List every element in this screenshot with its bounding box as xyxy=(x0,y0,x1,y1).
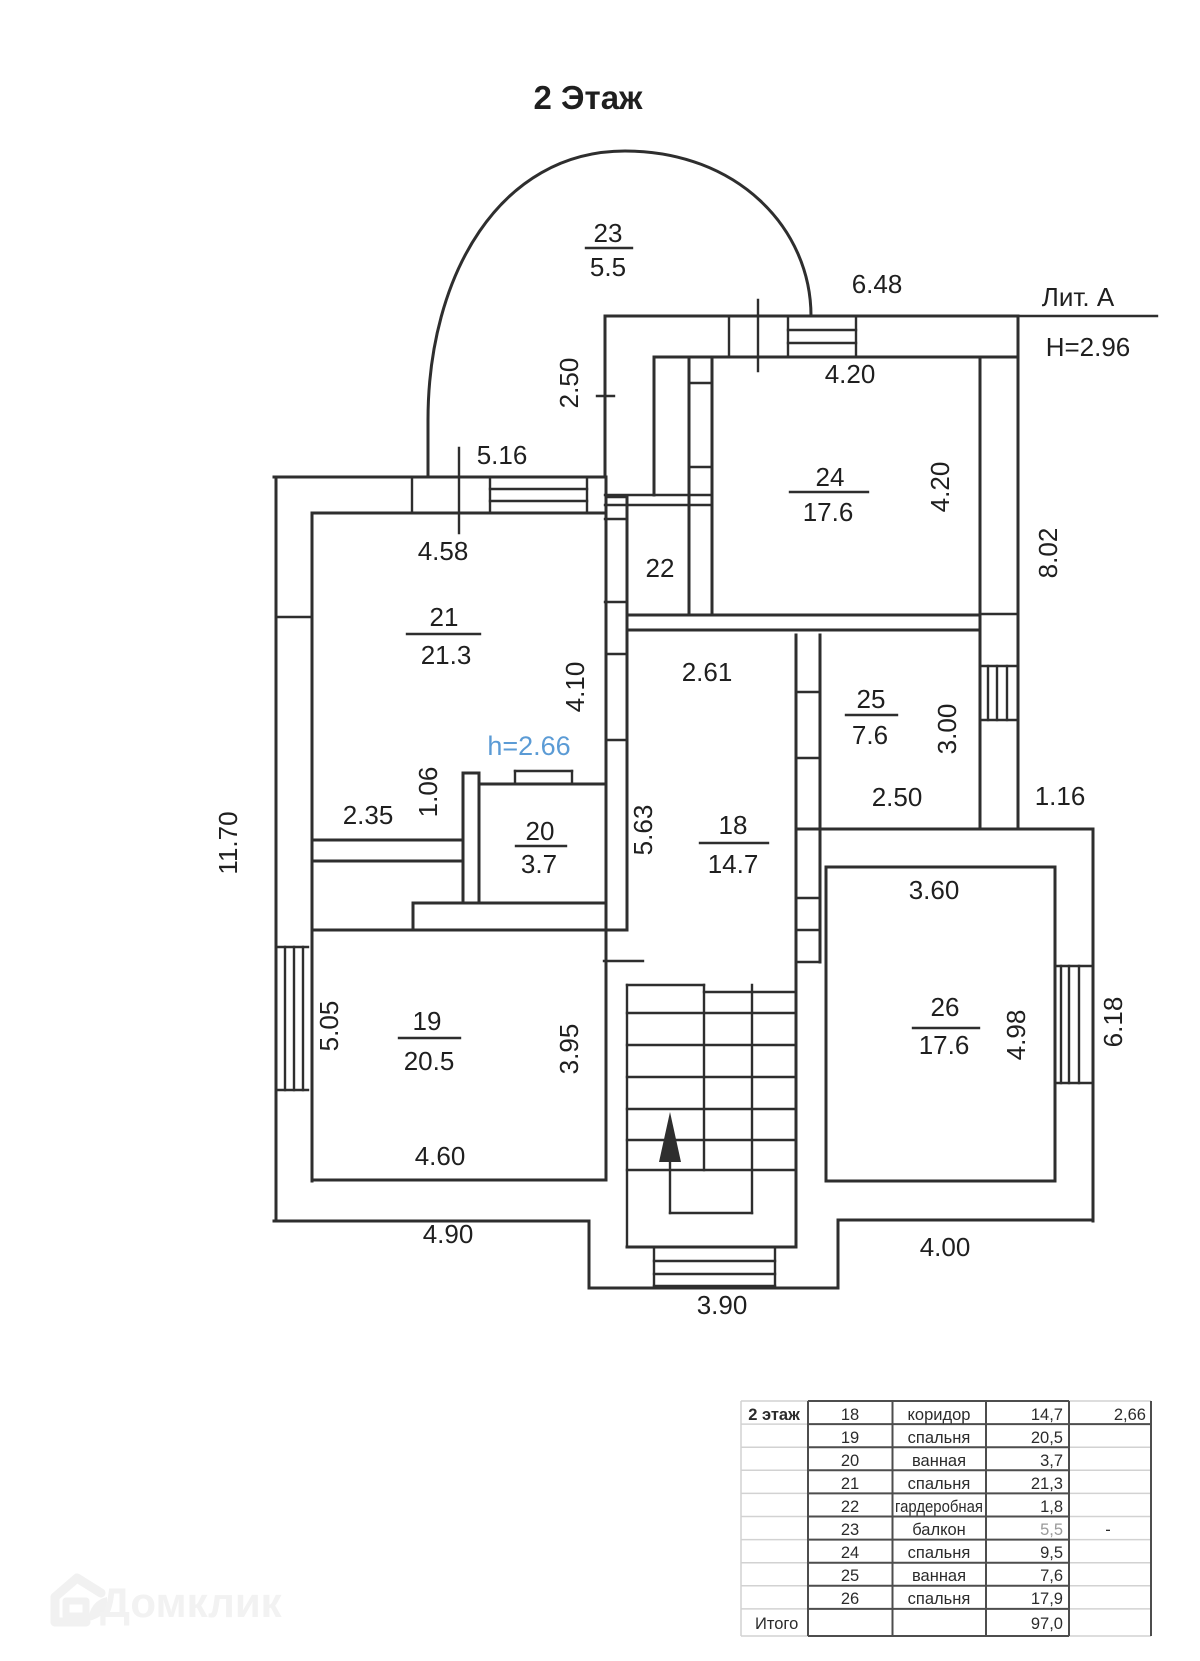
left wing outer walls xyxy=(275,477,278,1221)
svg-text:2.50: 2.50 xyxy=(872,782,923,812)
east outer wall lower xyxy=(1092,829,1095,1221)
corridor 18 east wall band xyxy=(795,635,798,1247)
stairs arrow head xyxy=(659,1112,681,1162)
svg-text:спальня: спальня xyxy=(908,1475,971,1493)
svg-text:22: 22 xyxy=(646,553,675,583)
svg-text:5.16: 5.16 xyxy=(477,440,528,470)
svg-text:20,5: 20,5 xyxy=(1031,1429,1063,1447)
partition 21/19 xyxy=(312,839,463,842)
svg-text:2.61: 2.61 xyxy=(682,657,733,687)
svg-text:23: 23 xyxy=(841,1521,859,1539)
svg-text:коридор: коридор xyxy=(908,1406,971,1424)
svg-text:4.20: 4.20 xyxy=(925,462,955,513)
svg-text:2.50: 2.50 xyxy=(554,358,584,409)
room 26 box xyxy=(825,867,828,1181)
svg-text:5.05: 5.05 xyxy=(314,1001,344,1052)
wall x654 xyxy=(653,357,656,495)
svg-text:26: 26 xyxy=(841,1590,859,1608)
svg-text:22: 22 xyxy=(841,1498,859,1516)
room 20 xyxy=(479,783,604,786)
svg-text:21: 21 xyxy=(430,602,459,632)
svg-text:балкон: балкон xyxy=(912,1521,966,1539)
balcony 23 arc xyxy=(428,151,811,477)
dim tick 5.16 xyxy=(458,448,460,533)
table xyxy=(741,1401,1151,1636)
svg-text:7,6: 7,6 xyxy=(1040,1567,1063,1585)
stairwell bottom wall xyxy=(627,1246,796,1249)
svg-text:-: - xyxy=(1105,1521,1111,1539)
dim tick 6.48 xyxy=(757,300,759,371)
svg-text:19: 19 xyxy=(841,1429,859,1447)
svg-text:8.02: 8.02 xyxy=(1033,528,1063,579)
svg-text:21: 21 xyxy=(841,1475,859,1493)
svg-text:4.90: 4.90 xyxy=(423,1219,474,1249)
svg-text:2 Этаж: 2 Этаж xyxy=(534,79,644,116)
tick east xyxy=(980,613,1018,615)
svg-text:ванная: ванная xyxy=(912,1452,966,1470)
svg-text:1.16: 1.16 xyxy=(1035,781,1086,811)
room 19 bottom wall xyxy=(312,1179,606,1182)
room 24 bottom wall band xyxy=(627,614,980,617)
dim tick 2.50 xyxy=(597,395,614,397)
svg-text:h=2.66: h=2.66 xyxy=(487,731,570,761)
svg-text:ванная: ванная xyxy=(912,1567,966,1585)
svg-text:гардеробная: гардеробная xyxy=(895,1498,983,1516)
svg-text:6.18: 6.18 xyxy=(1098,997,1128,1048)
landing tick xyxy=(604,960,643,962)
window W3 east lower xyxy=(1055,966,1093,1083)
bottom wall right xyxy=(838,1219,1093,1222)
svg-text:17.6: 17.6 xyxy=(803,497,854,527)
svg-text:21,3: 21,3 xyxy=(1031,1475,1063,1493)
svg-text:3.7: 3.7 xyxy=(521,849,557,879)
svg-text:спальня: спальня xyxy=(908,1590,971,1608)
window W2 east xyxy=(980,666,1018,720)
watermark logo Домклик xyxy=(55,1578,107,1622)
svg-text:17,9: 17,9 xyxy=(1031,1590,1063,1608)
porch window W6 xyxy=(654,1247,775,1286)
window W5 west xyxy=(276,947,308,1090)
svg-text:97,0: 97,0 xyxy=(1031,1615,1063,1633)
svg-text:25: 25 xyxy=(857,684,886,714)
room 25 bottom wall xyxy=(796,828,1093,831)
svg-text:Итого: Итого xyxy=(755,1615,798,1633)
svg-text:5.5: 5.5 xyxy=(590,252,626,282)
svg-text:20: 20 xyxy=(841,1452,859,1470)
inner top wall line xyxy=(654,356,1016,359)
room 24 east inner wall xyxy=(979,357,982,829)
svg-text:25: 25 xyxy=(841,1567,859,1585)
svg-text:23: 23 xyxy=(594,218,623,248)
svg-text:14.7: 14.7 xyxy=(708,849,759,879)
stairs xyxy=(627,985,796,1247)
svg-text:18: 18 xyxy=(719,810,748,840)
svg-text:11.70: 11.70 xyxy=(213,811,243,874)
svg-text:20: 20 xyxy=(526,816,555,846)
wall divider xyxy=(411,477,413,513)
svg-text:3.95: 3.95 xyxy=(554,1024,584,1075)
svg-text:3,7: 3,7 xyxy=(1040,1452,1063,1470)
svg-text:24: 24 xyxy=(841,1544,859,1562)
svg-text:20.5: 20.5 xyxy=(404,1046,455,1076)
svg-text:3.90: 3.90 xyxy=(697,1290,748,1320)
svg-text:H=2.96: H=2.96 xyxy=(1046,332,1131,362)
svg-text:18: 18 xyxy=(841,1406,859,1424)
svg-text:2,66: 2,66 xyxy=(1114,1406,1146,1424)
svg-text:4.58: 4.58 xyxy=(418,536,469,566)
svg-text:1,8: 1,8 xyxy=(1040,1498,1063,1516)
porch walls xyxy=(588,1221,591,1288)
svg-text:4.60: 4.60 xyxy=(415,1141,466,1171)
svg-text:4.10: 4.10 xyxy=(560,662,590,713)
vestibule west wall xyxy=(604,316,607,477)
svg-text:21.3: 21.3 xyxy=(421,640,472,670)
svg-text:Лит. А: Лит. А xyxy=(1042,282,1115,312)
top outer wall xyxy=(605,315,1018,318)
corridor west wall band xyxy=(605,477,608,1180)
svg-text:5,5: 5,5 xyxy=(1040,1521,1063,1539)
window W1 top xyxy=(788,316,856,357)
svg-text:2.35: 2.35 xyxy=(343,800,394,830)
svg-text:26: 26 xyxy=(931,992,960,1022)
door jamb xyxy=(728,316,730,357)
svg-text:4.98: 4.98 xyxy=(1001,1010,1031,1061)
svg-text:4.20: 4.20 xyxy=(825,359,876,389)
svg-text:9,5: 9,5 xyxy=(1040,1544,1063,1562)
svg-text:4.00: 4.00 xyxy=(920,1232,971,1262)
svg-text:2 этаж: 2 этаж xyxy=(748,1406,800,1424)
svg-text:7.6: 7.6 xyxy=(852,720,888,750)
svg-text:Домклик: Домклик xyxy=(100,1579,283,1626)
svg-text:спальня: спальня xyxy=(908,1429,971,1447)
wall bar below room 20 xyxy=(413,902,604,905)
svg-text:14,7: 14,7 xyxy=(1031,1406,1063,1424)
window W4 top-left xyxy=(490,477,587,513)
room 19 top wall xyxy=(312,929,627,932)
svg-text:3.60: 3.60 xyxy=(909,875,960,905)
svg-text:24: 24 xyxy=(816,462,845,492)
svg-text:5.63: 5.63 xyxy=(628,805,658,856)
svg-text:19: 19 xyxy=(413,1006,442,1036)
svg-text:3.00: 3.00 xyxy=(932,704,962,755)
wardrobe 22 walls xyxy=(688,357,691,615)
svg-text:17.6: 17.6 xyxy=(919,1030,970,1060)
svg-text:спальня: спальня xyxy=(908,1544,971,1562)
wall 1.06 xyxy=(462,773,465,903)
east outer wall xyxy=(1017,316,1020,829)
svg-text:1.06: 1.06 xyxy=(413,767,443,818)
svg-text:6.48: 6.48 xyxy=(852,269,903,299)
